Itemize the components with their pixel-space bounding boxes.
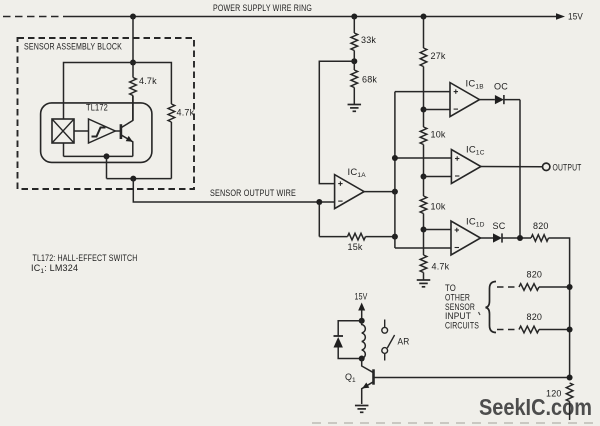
node 33k/68k junction bbox=[351, 58, 357, 64]
wire node B to IC1B - bbox=[424, 109, 451, 111]
resistor 27k bbox=[420, 48, 427, 67]
stray tick near INPUT bbox=[479, 312, 481, 315]
wire sensor output rail bbox=[107, 178, 172, 180]
wire 33k to junction bbox=[353, 51, 355, 62]
wire power drop into sensor block bbox=[132, 17, 134, 63]
wire IC1C output bbox=[481, 166, 543, 168]
wire divider tap to IC1A + bbox=[319, 61, 354, 183]
wire relay to Q1 collector bbox=[362, 359, 374, 373]
wire supply to hall element bbox=[64, 63, 134, 120]
svg-text:SeekIC.com: SeekIC.com bbox=[479, 394, 592, 420]
diode OC bbox=[495, 95, 504, 104]
svg-text:820: 820 bbox=[527, 270, 543, 280]
wire rail to 33k bbox=[353, 17, 355, 34]
transistor Q1 emitter bbox=[362, 382, 374, 404]
transistor (sensor) base bar bbox=[120, 124, 123, 139]
TL172 device rounded outline bbox=[41, 103, 152, 162]
svg-text:820: 820 bbox=[527, 312, 543, 322]
node threshold D (IC1D +) bbox=[421, 227, 427, 233]
wire diode to relay bottom bbox=[338, 348, 362, 359]
wire dashed row2 bbox=[497, 286, 518, 288]
wire node D to 4.7k bbox=[423, 230, 425, 256]
wire right 4.7k to output node bbox=[170, 122, 172, 179]
svg-text:10k: 10k bbox=[431, 202, 446, 212]
svg-text:120: 120 bbox=[546, 389, 562, 399]
svg-text:SENSOR ASSEMBLY BLOCK: SENSOR ASSEMBLY BLOCK bbox=[24, 42, 122, 52]
wire IC1A output bbox=[364, 191, 395, 193]
wire IC1D output bbox=[481, 237, 494, 239]
wire bus to IC1C + bbox=[395, 157, 452, 159]
wire supply to right 4.7k bbox=[133, 63, 171, 105]
relay coil K1 bbox=[362, 321, 366, 359]
svg-text:68k: 68k bbox=[362, 75, 377, 85]
ground under 4.7k bbox=[417, 280, 431, 287]
resistor 33k bbox=[351, 33, 358, 51]
node sensor common junction bbox=[104, 153, 110, 159]
wire hall to trigger bbox=[74, 130, 89, 132]
svg-text:15V: 15V bbox=[568, 12, 583, 22]
resistor 4.7k collector pull-up bbox=[130, 78, 137, 96]
wire feedback drop bbox=[318, 202, 320, 237]
op-amp IC1A bbox=[335, 175, 365, 209]
resistor 820 top bbox=[531, 235, 549, 242]
hysteresis glyph bbox=[92, 128, 106, 137]
dashed page edge bottom bbox=[312, 422, 599, 424]
node SC/OC junction bbox=[517, 235, 523, 241]
svg-text:27k: 27k bbox=[431, 51, 446, 61]
transistor (sensor) collector bbox=[121, 96, 133, 128]
op-amp IC1B bbox=[450, 83, 480, 117]
node 15k on bus bbox=[392, 234, 398, 240]
node row2 bus bbox=[567, 284, 573, 290]
svg-text:33k: 33k bbox=[361, 35, 376, 45]
wire power rail dashed lead-in bbox=[3, 16, 66, 18]
node threshold C (IC1C -) bbox=[421, 174, 427, 180]
svg-text:OUTPUT: OUTPUT bbox=[553, 162, 582, 172]
wire supply node to 4.7k bbox=[132, 63, 134, 78]
wire comparator bus vertical bbox=[394, 92, 396, 248]
svg-text:TL172: HALL-EFFECT SWITCH: TL172: HALL-EFFECT SWITCH bbox=[33, 253, 138, 263]
sensor assembly block dashed box bbox=[18, 38, 195, 189]
node row3 bus bbox=[567, 327, 573, 333]
svg-text:OC: OC bbox=[494, 82, 508, 92]
node relay bottom bbox=[359, 356, 365, 362]
svg-text:10k: 10k bbox=[431, 130, 446, 140]
wire hall bottom bbox=[63, 143, 65, 156]
wire 820 to right bus bbox=[549, 238, 570, 378]
wire 10k to node C bbox=[423, 145, 425, 177]
wire rail to 27k bbox=[423, 17, 425, 49]
wire feedback left segment bbox=[319, 236, 347, 238]
flyback diode D1 bbox=[334, 335, 344, 337]
wire 27k to node B bbox=[423, 67, 425, 110]
wire trigger to transistor base bbox=[115, 130, 121, 132]
wire bus to IC1B + bbox=[395, 91, 450, 93]
node threshold B (IC1B -) bbox=[421, 107, 427, 113]
node junction power rail / 33k bbox=[351, 14, 357, 20]
wire row2 to bus bbox=[539, 286, 570, 288]
wire common drop bbox=[106, 156, 108, 178]
hall element X bbox=[52, 119, 74, 143]
switch AR bbox=[384, 320, 386, 328]
brace to other sensors bbox=[486, 282, 497, 333]
wire node C to lower 10k bbox=[423, 177, 425, 197]
node bus/IC1C+ bbox=[392, 155, 398, 161]
resistor 4.7k bottom bbox=[420, 255, 427, 273]
node junction power rail / sensor supply bbox=[130, 14, 136, 20]
wire junction to 68k bbox=[353, 61, 355, 70]
transistor Q1 base bar bbox=[372, 369, 375, 384]
wire IC1B output bbox=[480, 99, 495, 101]
node relay top bbox=[359, 318, 365, 324]
node IC1A output on bus bbox=[392, 189, 398, 195]
terminal OUTPUT circle bbox=[543, 163, 550, 170]
wire bus to IC1D - bbox=[395, 247, 451, 249]
wire sensor output down/out bbox=[133, 179, 319, 202]
transistor (sensor) emitter bbox=[121, 135, 133, 157]
wire row3 to bus bbox=[539, 329, 570, 331]
wire sensor wire to IC1A - bbox=[319, 201, 334, 203]
ground under Q1 bbox=[355, 406, 369, 413]
node junction power rail / 27k bbox=[421, 14, 427, 20]
svg-text:4.7k: 4.7k bbox=[139, 76, 157, 86]
wire OC drop bbox=[519, 100, 521, 238]
node Q1 base / right bus bbox=[567, 375, 573, 381]
wire dashed row3 bbox=[497, 329, 518, 331]
hall element square bbox=[52, 119, 74, 143]
svg-text:4.7k: 4.7k bbox=[177, 108, 195, 118]
wire OC to corner bbox=[504, 99, 520, 101]
wire node D to IC1D + bbox=[424, 229, 452, 231]
wire 4.7k to ground bbox=[423, 273, 425, 281]
wire 68k to ground bbox=[353, 88, 355, 105]
node sensor output junction bbox=[130, 176, 136, 182]
power rail arrowhead to 15V bbox=[556, 13, 565, 20]
wire Q1 base bbox=[374, 377, 570, 379]
resistor 10k lower bbox=[420, 196, 427, 214]
resistor 4.7k output pull-up bbox=[168, 104, 175, 122]
resistor 120 bbox=[566, 383, 573, 402]
svg-text:POWER SUPPLY WIRE RING: POWER SUPPLY WIRE RING bbox=[213, 3, 312, 13]
resistor 820 row3 bbox=[519, 326, 539, 333]
svg-text:4.7k: 4.7k bbox=[432, 262, 450, 272]
op-amp IC1C bbox=[451, 150, 481, 184]
node IC1A - junction bbox=[316, 199, 322, 205]
schmitt trigger amp triangle bbox=[89, 119, 116, 143]
svg-text:AR: AR bbox=[398, 337, 410, 347]
wire sensor internal ground rail bbox=[64, 155, 133, 157]
diode SC bbox=[493, 233, 502, 242]
svg-text:SC: SC bbox=[493, 221, 506, 231]
resistor 68k bbox=[351, 70, 358, 88]
ground under 68k bbox=[348, 105, 362, 112]
wire node B to 10k bbox=[423, 110, 425, 128]
wire 10k to node D bbox=[423, 214, 425, 230]
wire feedback right segment bbox=[366, 236, 395, 238]
svg-text:15k: 15k bbox=[348, 242, 363, 252]
svg-text:TL172: TL172 bbox=[86, 103, 108, 113]
op-amp IC1D bbox=[451, 221, 481, 255]
15V arrow up bbox=[358, 303, 365, 311]
svg-text:15V: 15V bbox=[355, 292, 368, 302]
resistor 820 row2 bbox=[519, 284, 539, 291]
wire 4.7k to collector bbox=[132, 96, 134, 121]
resistor 15k bbox=[348, 233, 366, 240]
svg-text:820: 820 bbox=[533, 221, 549, 231]
wire relay top to diode bbox=[338, 321, 362, 336]
resistor 10k upper bbox=[420, 127, 427, 145]
svg-text:SENSOR OUTPUT WIRE: SENSOR OUTPUT WIRE bbox=[210, 188, 296, 198]
wire below 120 bbox=[569, 402, 571, 421]
wire power supply rail bbox=[66, 16, 557, 18]
node sensor supply junction bbox=[130, 60, 136, 66]
wire node C to IC1C - bbox=[424, 176, 452, 178]
wire SC to node bbox=[502, 237, 531, 239]
